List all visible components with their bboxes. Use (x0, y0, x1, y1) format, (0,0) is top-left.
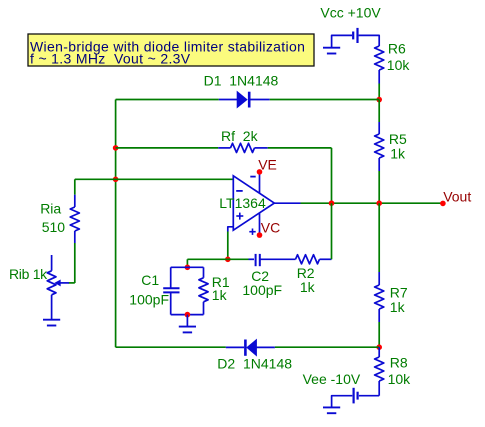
wire R2 to feedback rail (331, 203, 333, 259)
diode D1 1N4148 (219, 92, 270, 108)
wire D1 right to node A (270, 99, 380, 101)
svg-text:100pF: 100pF (129, 292, 169, 308)
potentiometer Rib 1k (47, 255, 56, 320)
capacitor C1 100pF (163, 267, 179, 314)
value R1 1k (212, 287, 228, 303)
wire Ria to wiper (69, 243, 75, 283)
label R7 (390, 285, 408, 301)
wire Rf right + feedback rail (268, 148, 332, 203)
svg-text:Ria: Ria (40, 201, 61, 217)
label R8 (390, 354, 408, 370)
wire D2 right to node C (275, 346, 379, 348)
value R2 1k (300, 279, 316, 295)
op-amp VC power pin (259, 213, 261, 235)
svg-text:1k: 1k (212, 287, 228, 303)
label Vout (443, 189, 471, 205)
diode D2 1N4148 (226, 340, 275, 356)
label R5 (389, 131, 407, 147)
node B junction (plus input / C2 / C1R1) (225, 257, 231, 263)
svg-text:10k: 10k (388, 371, 412, 387)
node VE (257, 169, 263, 175)
label Vcc (320, 4, 381, 20)
node VC (257, 232, 263, 238)
wire C1R1 bottom bar (171, 314, 204, 316)
label Rib 1k (9, 266, 48, 282)
svg-text:10k: 10k (387, 57, 411, 73)
wire node B to C1R1 feed (187, 259, 227, 267)
battery V- (Vee) (332, 388, 380, 407)
label D2 (217, 355, 292, 371)
svg-text:1k: 1k (300, 279, 316, 295)
wire R5 to output node (378, 171, 380, 203)
svg-text:510: 510 (42, 219, 66, 235)
svg-text:LT1364: LT1364 (219, 195, 266, 211)
battery V+ (Vcc) (332, 28, 380, 48)
svg-text:R6: R6 (388, 40, 406, 56)
op-amp VC pin plus sign (249, 229, 255, 235)
resistor R2 1k (296, 255, 332, 264)
resistor R6 (375, 46, 384, 84)
wire D1 left (from left rail) (116, 99, 219, 101)
resistor Ria 510 (70, 195, 79, 243)
node A junction (376, 97, 382, 103)
wire R6 to node (378, 84, 380, 100)
wire inverting input (75, 178, 234, 180)
wire inv to Ria (74, 179, 76, 194)
op-amp output lead (274, 202, 300, 204)
node C junction (376, 344, 382, 350)
op-amp VE power pin (259, 172, 261, 193)
ground (Vee battery) (323, 407, 340, 413)
wire R7 to node C (378, 322, 380, 347)
value Ria 510 (42, 219, 66, 235)
svg-text:Vcc +10V: Vcc +10V (320, 4, 381, 20)
wire left rail (115, 100, 117, 348)
svg-text:VE: VE (258, 156, 277, 172)
value R7 1k (390, 299, 406, 315)
svg-text:VC: VC (261, 220, 280, 236)
node output/feedback junction (329, 200, 335, 206)
label VC (261, 220, 280, 236)
label R6 (388, 40, 406, 56)
svg-text:Vee -10V: Vee -10V (303, 371, 361, 387)
wire output (301, 202, 443, 204)
svg-text:f ~ 1.3 MHz Vout ~ 2.3V: f ~ 1.3 MHz Vout ~ 2.3V (30, 51, 191, 67)
node output/R5 junction (376, 200, 382, 206)
capacitor C2 100pF (249, 254, 296, 266)
svg-text:100pF: 100pF (242, 282, 282, 298)
value C1 100pF (129, 292, 169, 308)
resistor R7 1k (375, 272, 384, 322)
svg-text:Rib 1k: Rib 1k (9, 266, 48, 282)
pot Rib wiper arrow (55, 280, 69, 285)
label Rf 2k (221, 128, 259, 144)
svg-text:Vout: Vout (443, 189, 471, 205)
svg-text:1k: 1k (390, 146, 406, 162)
ground (Rib) (43, 320, 60, 326)
label Ria (40, 201, 61, 217)
op-amp non-inverting plus sign (236, 213, 243, 220)
op-amp non-inverting pin lead (228, 227, 234, 232)
label R1 (212, 274, 230, 290)
node C1R1 top junction (185, 265, 191, 271)
label R2 (297, 265, 315, 281)
label D1 (204, 72, 279, 88)
label Vee (303, 371, 361, 387)
value R5 1k (390, 146, 406, 162)
ground (C1R1) (179, 315, 196, 333)
node Vout (440, 201, 446, 207)
wire node A to R5 (378, 100, 380, 122)
svg-text:C1: C1 (141, 272, 159, 288)
resistor R8 10k (375, 347, 384, 396)
wire op-amp plus input down (227, 232, 229, 260)
wire Rf left (116, 147, 219, 149)
value R8 10k (388, 371, 412, 387)
wire node B to C2 (228, 258, 249, 260)
value R6 10k (387, 57, 411, 73)
svg-text:Rf 2k: Rf 2k (221, 128, 259, 144)
ground (Vcc battery) (323, 48, 340, 54)
op-amp U1 LT1364 triangle (233, 176, 274, 230)
title box (28, 34, 314, 67)
wire C1R1 top bar (171, 266, 204, 268)
node C1R1 bottom junction (185, 312, 191, 318)
label C1 (141, 272, 159, 288)
node rail/inv junction (113, 177, 119, 183)
label C2 (251, 268, 269, 284)
label VE (258, 156, 277, 172)
resistor R1 1k (199, 267, 208, 314)
node rail/Rf junction (113, 145, 119, 151)
svg-text:D1 1N4148: D1 1N4148 (204, 72, 279, 88)
svg-text:R5: R5 (389, 131, 407, 147)
op-amp label LT1364 (219, 195, 266, 211)
svg-text:D2 1N4148: D2 1N4148 (217, 355, 292, 371)
value C2 100pF (242, 282, 282, 298)
op-amp inverting minus sign (236, 190, 243, 192)
resistor Rf 2k (218, 143, 268, 152)
svg-text:R8: R8 (390, 354, 408, 370)
wire D2 left (left rail to D2) (116, 346, 226, 348)
resistor R5 (375, 122, 384, 171)
svg-text:1k: 1k (390, 299, 406, 315)
op-amp VE pin minus sign (250, 176, 255, 178)
wire output node to R7 (378, 203, 380, 272)
